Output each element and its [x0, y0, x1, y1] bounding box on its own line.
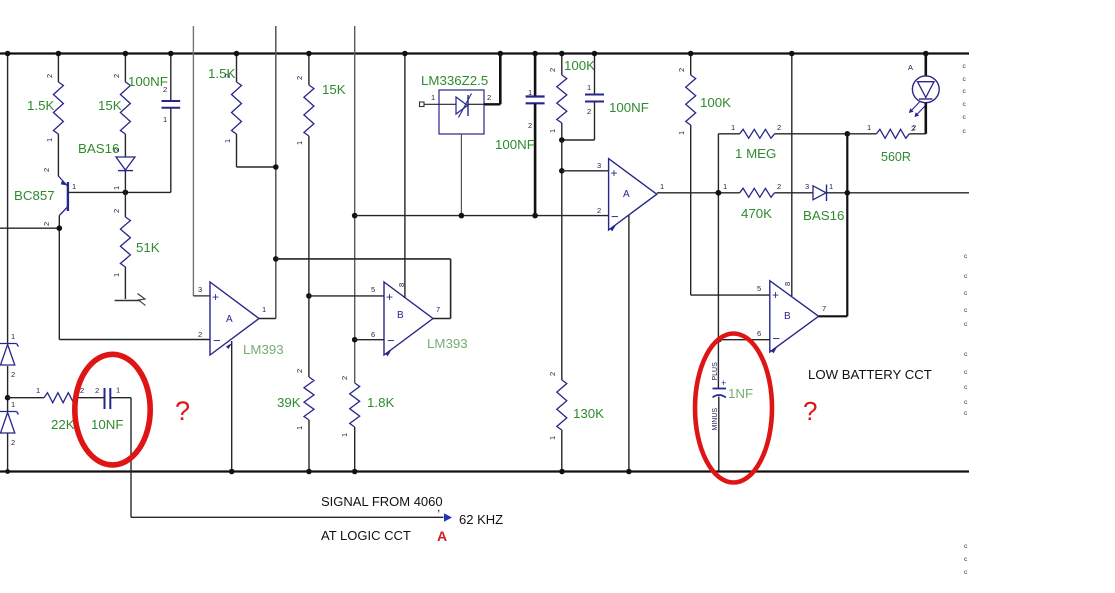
- svg-text:51K: 51K: [136, 240, 160, 255]
- svg-text:1: 1: [36, 386, 40, 395]
- svg-text:6: 6: [371, 330, 375, 339]
- svg-text:SIGNAL FROM 4060: SIGNAL FROM 4060: [321, 494, 443, 509]
- wire feedback column: [717, 134, 719, 388]
- op-amp U3A: [597, 159, 664, 232]
- svg-text:MINUS: MINUS: [712, 408, 719, 431]
- wire bottom ground rail: [0, 470, 969, 472]
- wire left column: [5, 51, 11, 474]
- svg-text:5: 5: [371, 285, 375, 294]
- svg-text:PLUS: PLUS: [712, 362, 719, 381]
- svg-text:10NF: 10NF: [91, 417, 124, 432]
- svg-text:1 MEG: 1 MEG: [735, 146, 776, 161]
- svg-text:1: 1: [340, 433, 349, 437]
- wire bus column to opamp A output: [273, 26, 279, 319]
- svg-text:15K: 15K: [322, 82, 346, 97]
- svg-text:1: 1: [11, 400, 15, 409]
- annotation red question mark 2: [803, 396, 817, 426]
- svg-text:1: 1: [731, 123, 735, 132]
- svg-text:2: 2: [340, 376, 349, 380]
- svg-text:1: 1: [431, 93, 435, 102]
- svg-text:+: +: [721, 378, 726, 388]
- wire opamp A2 pin4 down: [626, 216, 632, 475]
- svg-text:2: 2: [295, 76, 304, 80]
- svg-text:+: +: [212, 290, 219, 304]
- svg-text:1: 1: [116, 386, 120, 395]
- svg-text:−: −: [213, 333, 221, 348]
- svg-text:2: 2: [95, 386, 99, 395]
- annotation red ellipse 2: [695, 334, 772, 483]
- svg-text:1: 1: [11, 332, 15, 341]
- op-amp U1A LM393: [198, 282, 284, 357]
- svg-text:8: 8: [783, 282, 792, 286]
- node label SIGNAL FROM 4060: [321, 494, 443, 509]
- connector pin marks right edge: [963, 63, 969, 576]
- svg-text:2: 2: [597, 206, 601, 215]
- svg-text:100NF: 100NF: [609, 100, 649, 115]
- svg-text:1: 1: [660, 182, 664, 191]
- wire LM336 pin2 riser: [484, 51, 503, 105]
- svg-text:1: 1: [223, 139, 232, 143]
- node label 62 KHZ: [459, 512, 503, 527]
- wire opamp A output: [259, 318, 276, 320]
- capacitor 100NF (center): [495, 51, 545, 219]
- svg-text:2: 2: [295, 369, 304, 373]
- svg-text:2: 2: [112, 74, 121, 78]
- svg-text:AT LOGIC CCT: AT LOGIC CCT: [321, 528, 411, 543]
- svg-text:2: 2: [548, 68, 557, 72]
- wire opamp B2 output: [819, 315, 848, 317]
- wire emitter: [57, 134, 59, 176]
- svg-text:1: 1: [163, 115, 167, 124]
- svg-text:1: 1: [587, 83, 591, 92]
- annotation red ellipse 1: [75, 354, 150, 465]
- svg-text:1.8K: 1.8K: [367, 395, 394, 410]
- wire 10NF output down and right: [131, 398, 444, 518]
- svg-text:B: B: [397, 310, 404, 321]
- resistor 130K: [548, 372, 604, 474]
- svg-text:2: 2: [42, 222, 51, 226]
- svg-text:2: 2: [198, 330, 202, 339]
- svg-text:7: 7: [436, 305, 440, 314]
- svg-text:2: 2: [45, 74, 54, 78]
- capacitor C? 1NF (circled): [712, 362, 753, 472]
- svg-text:1: 1: [112, 273, 121, 277]
- resistor 1.8K: [340, 340, 394, 475]
- svg-text:560R: 560R: [881, 150, 911, 164]
- wire opamp A pin4 to ground rail: [229, 341, 235, 474]
- resistor 15K (left): [98, 51, 130, 134]
- resistor 22K: [8, 386, 85, 432]
- svg-text:5: 5: [757, 284, 761, 293]
- wire top supply rail: [0, 52, 969, 54]
- resistor 1.5K (second): [208, 51, 242, 143]
- wire 100K to opamp B2 pin5: [691, 125, 770, 295]
- wire inverting input net of opamp A2: [355, 215, 609, 217]
- svg-text:2: 2: [587, 107, 591, 116]
- wire base net: [68, 190, 171, 196]
- wire 1.5K to bus: [237, 134, 276, 167]
- svg-text:2: 2: [548, 372, 557, 376]
- svg-text:2: 2: [11, 438, 15, 447]
- resistor 1.5K (left): [27, 51, 63, 142]
- svg-text:−: −: [773, 331, 781, 346]
- svg-text:A: A: [437, 528, 447, 544]
- svg-text:2: 2: [42, 168, 51, 172]
- svg-text:1: 1: [45, 138, 54, 142]
- svg-text:A: A: [623, 189, 630, 200]
- svg-text:LOW BATTERY CCT: LOW BATTERY CCT: [808, 367, 932, 382]
- diode BAS16 (horizontal): [803, 182, 844, 223]
- zener diode D2: [0, 400, 19, 447]
- annotation red question mark 1: [175, 396, 190, 426]
- svg-text:22K: 22K: [51, 417, 75, 432]
- svg-text:1: 1: [295, 426, 304, 430]
- svg-text:1: 1: [867, 123, 871, 132]
- svg-text:1: 1: [528, 88, 532, 97]
- svg-text:2: 2: [777, 123, 781, 132]
- svg-text:2: 2: [528, 121, 532, 130]
- wire output heavy column: [845, 131, 851, 316]
- LED D3: [908, 51, 939, 134]
- svg-text:2: 2: [912, 123, 916, 132]
- svg-text:130K: 130K: [573, 406, 604, 421]
- wire pair join: [559, 123, 595, 143]
- svg-text:BC857: BC857: [14, 188, 55, 203]
- svg-text:LM393: LM393: [243, 342, 284, 357]
- svg-text:2: 2: [112, 148, 121, 152]
- svg-text:,: ,: [437, 500, 440, 514]
- svg-text:−: −: [387, 333, 395, 348]
- capacitor 10NF: [77, 386, 131, 433]
- svg-text:2: 2: [677, 68, 686, 72]
- svg-text:?: ?: [803, 396, 817, 426]
- svg-text:6: 6: [757, 329, 761, 338]
- svg-text:2: 2: [487, 93, 491, 102]
- svg-text:15K: 15K: [98, 98, 122, 113]
- svg-text:+: +: [386, 290, 393, 304]
- resistor 39K: [277, 369, 314, 474]
- svg-text:1: 1: [548, 436, 557, 440]
- svg-text:3: 3: [198, 285, 202, 294]
- resistor 100K (second): [677, 51, 731, 135]
- wire opamp B pin8 supply: [402, 51, 408, 298]
- svg-text:1.5K: 1.5K: [27, 98, 54, 113]
- wire collector to opamp A inverting input: [59, 216, 210, 340]
- resistor 15K (second): [295, 51, 346, 145]
- svg-text:1: 1: [548, 129, 557, 133]
- wire bus column to opamp A pin3: [193, 26, 210, 296]
- svg-text:LM336Z2.5: LM336Z2.5: [421, 73, 488, 88]
- resistor 1 MEG: [718, 123, 847, 161]
- wire opamp B2 pin8 supply: [789, 51, 795, 296]
- svg-text:1: 1: [677, 131, 686, 135]
- svg-text:39K: 39K: [277, 395, 301, 410]
- node signal arrow: [444, 513, 452, 521]
- svg-text:−: −: [611, 209, 619, 224]
- wire bus column 1.8K net: [352, 26, 358, 383]
- svg-text:470K: 470K: [741, 206, 772, 221]
- svg-text:100NF: 100NF: [495, 137, 535, 152]
- node label AT LOGIC CCT: [321, 528, 411, 543]
- voltage reference U2 LM336Z2.5: [420, 73, 492, 134]
- svg-text:2: 2: [163, 85, 167, 94]
- capacitor 100NF (left): [128, 51, 180, 193]
- resistor 51K: [112, 192, 160, 299]
- svg-text:BAS16: BAS16: [803, 208, 844, 223]
- capacitor 100NF (pair): [585, 51, 649, 140]
- transistor Q1 BC857: [14, 168, 76, 226]
- node label LOW BATTERY CCT: [808, 367, 932, 382]
- svg-text:+: +: [611, 166, 618, 180]
- svg-text:1: 1: [295, 141, 304, 145]
- svg-text:A: A: [908, 63, 913, 72]
- svg-text:1: 1: [112, 186, 121, 190]
- svg-text:62 KHZ: 62 KHZ: [459, 512, 503, 527]
- svg-text:100NF: 100NF: [128, 74, 168, 89]
- node label A (red): [437, 528, 447, 544]
- svg-text:1: 1: [72, 182, 76, 191]
- svg-text:LM393: LM393: [427, 336, 468, 351]
- op-amp U3B: [757, 281, 826, 354]
- svg-text:1: 1: [829, 182, 833, 191]
- svg-text:+: +: [772, 288, 779, 302]
- wire stub from left edge: [0, 225, 62, 231]
- wire opamp B2 pin6: [716, 190, 770, 343]
- svg-text:B: B: [784, 311, 791, 322]
- svg-text:3: 3: [805, 182, 809, 191]
- svg-text:2: 2: [112, 209, 121, 213]
- svg-text:1NF: 1NF: [728, 386, 753, 401]
- ground: [115, 294, 146, 306]
- resistor 470K: [723, 182, 781, 221]
- wire opamp A2 output net: [657, 190, 969, 196]
- svg-text:2: 2: [223, 74, 232, 78]
- svg-text:7: 7: [822, 304, 826, 313]
- svg-text:A: A: [226, 314, 233, 325]
- svg-text:2: 2: [11, 370, 15, 379]
- resistor 560R: [847, 123, 926, 164]
- zener diode D1: [0, 332, 19, 379]
- svg-text:100K: 100K: [564, 58, 595, 73]
- svg-text:100K: 100K: [700, 95, 731, 110]
- wire to opamp A2 pin3: [559, 140, 609, 380]
- svg-text:1: 1: [723, 182, 727, 191]
- svg-text:?: ?: [175, 396, 190, 426]
- svg-text:3: 3: [597, 161, 601, 170]
- wire 15K down to 39K / opamp B pin5: [306, 136, 384, 377]
- resistor 100K (first): [548, 51, 595, 133]
- diode BAS16 (vertical): [78, 134, 135, 192]
- svg-text:2: 2: [777, 182, 781, 191]
- op-amp U1B LM393: [371, 282, 468, 356]
- node label comma tick: [437, 500, 440, 514]
- wire LM336 adjust down: [459, 134, 465, 218]
- svg-text:1: 1: [262, 305, 266, 314]
- wire opamp A/B output net: [276, 259, 451, 319]
